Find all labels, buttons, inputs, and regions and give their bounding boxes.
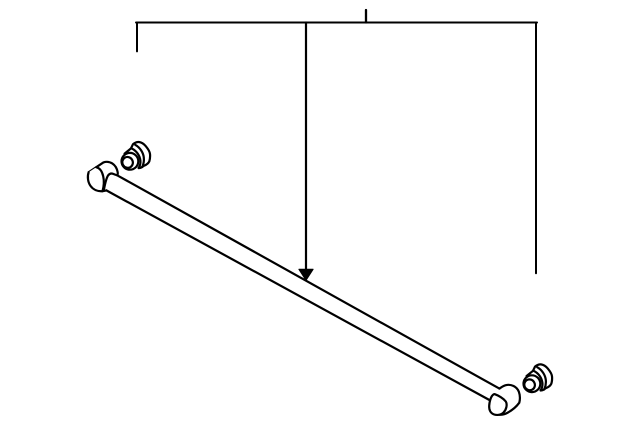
left cap top edge and corner xyxy=(89,162,118,176)
right bushing xyxy=(522,364,552,392)
left end cap xyxy=(88,162,118,191)
left cap front face xyxy=(88,167,104,191)
arrowhead xyxy=(299,269,313,280)
bushing rib 2 xyxy=(135,145,144,167)
left bushing xyxy=(120,142,150,170)
left cap rod junction arc xyxy=(104,174,118,190)
leader bracket left drop xyxy=(136,23,138,52)
bushing bore xyxy=(120,155,135,170)
bushing rib 1 xyxy=(131,148,140,168)
rod bottom edge xyxy=(106,190,489,400)
leader bracket horizontal line xyxy=(136,22,537,24)
rod top edge xyxy=(117,175,499,388)
leader bracket right drop xyxy=(535,23,537,274)
right cap silhouette xyxy=(499,385,520,415)
bushing silhouette xyxy=(125,142,150,168)
arrow stem xyxy=(305,23,307,271)
left cap bottom edge xyxy=(103,189,107,192)
bushing front face xyxy=(121,153,138,170)
leader bracket label tick xyxy=(365,10,367,23)
right cap front face ellipse xyxy=(489,394,506,415)
right end cap xyxy=(489,385,520,415)
